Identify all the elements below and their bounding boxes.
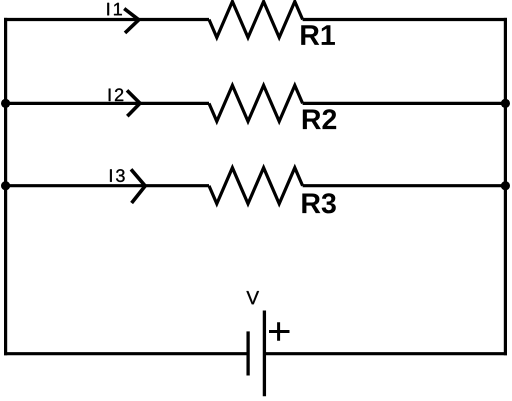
current arrow I2: [127, 90, 140, 116]
resistor R3: [209, 168, 303, 204]
resistor R2: [209, 85, 303, 121]
label R3: [302, 193, 335, 213]
wire left vertical bus: [4, 18, 7, 355]
wire bottom rail, right of battery: [265, 352, 508, 355]
wire bottom rail, left of battery: [4, 352, 248, 355]
node junction: right bus / third branch: [501, 181, 510, 190]
wire top branch, left segment: [4, 18, 209, 21]
current arrow I1: [124, 9, 139, 33]
label V (battery): [246, 291, 259, 304]
node junction: left bus / third branch: [1, 181, 10, 190]
wire top branch, right segment: [303, 18, 507, 21]
label I2: [109, 88, 123, 101]
wire third branch, right segment: [303, 184, 507, 187]
node junction: left bus / middle branch: [1, 99, 10, 108]
wire middle branch, left segment: [4, 102, 209, 105]
resistor R1: [209, 2, 303, 38]
label I3: [110, 169, 125, 182]
battery V: positive (long) plate: [263, 311, 266, 397]
wire middle branch, right segment: [303, 102, 507, 105]
label R1: [301, 25, 335, 45]
label R2: [303, 109, 336, 129]
wire right vertical bus: [504, 18, 507, 355]
wire third branch, left segment: [4, 184, 209, 187]
current arrow I3: [131, 169, 145, 203]
node junction: right bus / middle branch: [501, 99, 510, 108]
battery V: negative (short) plate: [246, 331, 249, 375]
battery plus sign: [269, 322, 290, 341]
label I1: [107, 3, 121, 15]
